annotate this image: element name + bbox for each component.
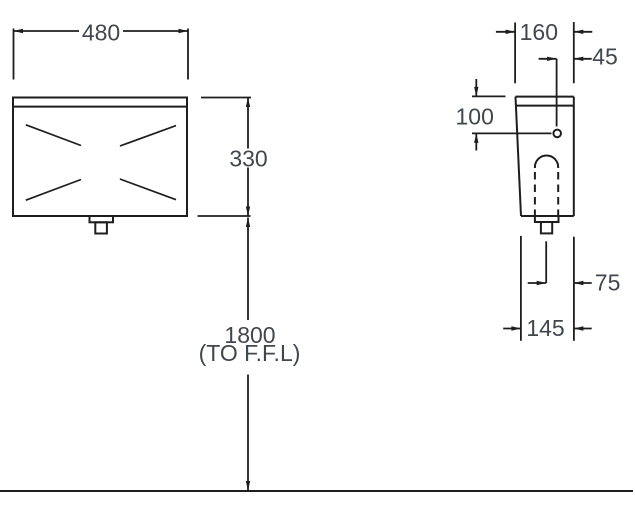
front view diagonal line bottom-right (120, 179, 176, 200)
dimension 75 extension line right (573, 237, 575, 341)
dimension 330 line upper segment (247, 98, 249, 149)
side view lid line (516, 105, 574, 107)
side view flush pipe dashed right side (557, 172, 559, 216)
front view outlet flange (90, 216, 114, 222)
dimension 100 arrow tail bottom (475, 133, 477, 150)
front view outlet nut (95, 222, 107, 233)
side view top edge (516, 96, 574, 98)
dimension 480 line left segment (14, 30, 80, 32)
dimension 100 arrowhead bottom pointing up (474, 133, 478, 143)
side view flush pipe solid arc top (535, 156, 558, 168)
svg-text:75: 75 (595, 270, 621, 296)
svg-text:330: 330 (229, 146, 267, 172)
dimension 330 arrowhead down (246, 207, 250, 217)
dimension 100 extension line top (472, 95, 506, 97)
side view bottom edge (521, 215, 574, 217)
dimension 330 arrowhead up (246, 98, 250, 108)
side view left slanted edge (516, 97, 522, 216)
dimension 160 arrowhead left pointing right (506, 30, 515, 34)
dimension 330 line lower segment (247, 168, 249, 217)
svg-text:(TO F.F.L): (TO F.F.L) (199, 340, 301, 366)
dimension 75 extension line middle below outlet (545, 241, 547, 283)
dimension 1800 line lower segment (247, 375, 249, 491)
dimension 45 arrow tail left (539, 58, 557, 60)
dimension 100 arrow tail top (475, 79, 477, 96)
dimension 1800 arrowhead down at floor (246, 481, 250, 491)
side view outlet flange (535, 216, 559, 222)
dimension 480 extension line right (187, 29, 189, 80)
front view lid line (13, 106, 187, 108)
dimension 160 arrow tail left (496, 31, 515, 33)
side view outlet nut (541, 222, 552, 233)
dimension 145 extension line left (520, 236, 522, 341)
dimension 145 arrow tail left (503, 328, 521, 330)
dimension 145 arrowhead left pointing right (511, 326, 521, 330)
dimension 45 leader line down to hole (556, 59, 558, 127)
dimension 75 arrow tail right (574, 282, 592, 284)
dimension 480 extension line left (13, 29, 15, 80)
dimension 330 extension line bottom (198, 215, 251, 217)
dimension 160 arrow tail right (574, 31, 593, 33)
dimension 480 arrowhead left (14, 29, 24, 33)
dimension 100 leader line to hole centre (472, 132, 552, 134)
dimension 480 line right segment (123, 30, 188, 32)
side view right edge (573, 97, 575, 216)
floor F.F.L ground line (0, 490, 633, 492)
side view flush pipe dashed left side (534, 172, 536, 216)
svg-text:100: 100 (456, 103, 494, 129)
dimension 45 arrow tail right (574, 58, 592, 60)
front view cistern outline (13, 98, 187, 217)
svg-text:480: 480 (82, 20, 120, 46)
svg-text:160: 160 (520, 19, 558, 45)
front view diagonal line bottom-left (26, 180, 81, 201)
dimension 45 arrowhead right pointing left (574, 57, 584, 61)
dimension 75 arrow tail left (528, 282, 547, 284)
dimension 160 extension line left (514, 23, 516, 84)
svg-text:45: 45 (592, 44, 618, 70)
dimension 145 arrow tail right (574, 328, 592, 330)
front view diagonal line top-left (26, 125, 81, 146)
dimension 330 extension line top (201, 97, 251, 99)
side view inlet hole circle (553, 130, 561, 138)
dimension 1800 line upper segment (247, 218, 249, 321)
dimension 75 arrowhead right pointing left (574, 281, 584, 285)
dimension 45 arrowhead left pointing right (547, 57, 557, 61)
dimension 100 arrowhead top pointing down (474, 87, 478, 97)
svg-text:145: 145 (526, 315, 564, 341)
dimension 1800 arrowhead up at cistern base (246, 218, 250, 228)
front view diagonal line top-right (120, 126, 176, 146)
dimension 160 arrowhead right pointing left (574, 30, 584, 34)
dimension 160 extension line right (573, 22, 575, 83)
dimension 145 arrowhead right pointing left (574, 326, 584, 330)
dimension 480 arrowhead right (179, 29, 189, 33)
dimension 75 arrowhead left pointing right (537, 281, 547, 285)
